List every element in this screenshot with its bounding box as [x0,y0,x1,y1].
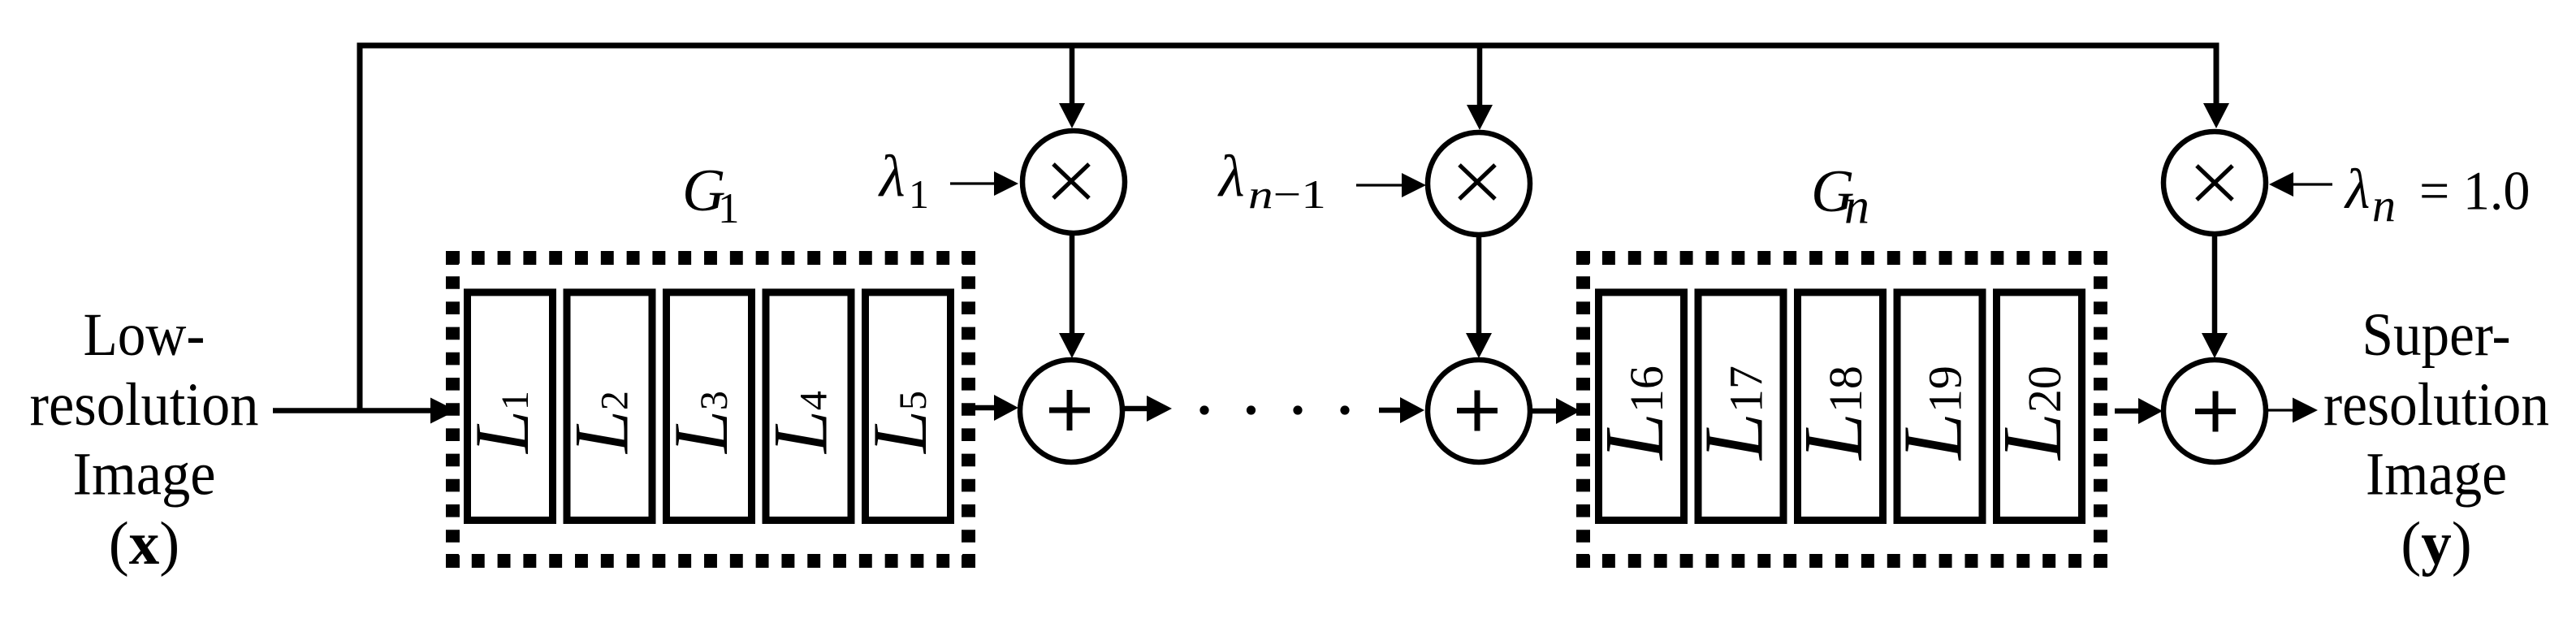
svg-text:λ: λ [878,143,905,209]
svg-text:resolution: resolution [2323,371,2549,439]
svg-text:(x): (x) [109,510,179,578]
svg-text:λ: λ [1217,143,1245,209]
svg-text:resolution: resolution [30,371,259,439]
svg-text:λ: λ [2344,158,2370,221]
svg-text:1: 1 [718,185,740,232]
svg-text:Super-: Super- [2362,301,2511,369]
svg-text:= 1.0: = 1.0 [2419,159,2531,221]
svg-text:Low-: Low- [84,301,205,369]
svg-text:Image: Image [73,441,216,508]
svg-text:n: n [2372,179,2396,231]
svg-text:n−1: n−1 [1248,171,1326,217]
svg-text:(y): (y) [2401,510,2471,578]
svg-text:Image: Image [2366,441,2507,508]
svg-text:1: 1 [909,171,929,217]
svg-text:n: n [1844,180,1869,235]
